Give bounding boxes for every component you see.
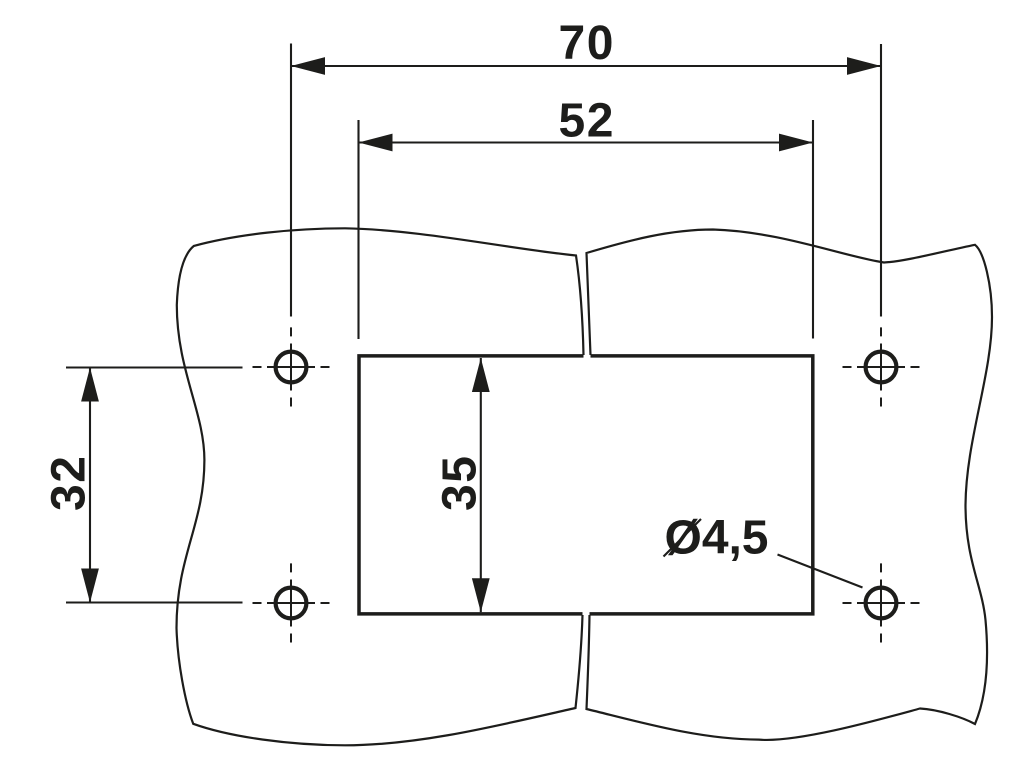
svg-text:35: 35 — [434, 456, 487, 511]
svg-text:52: 52 — [559, 95, 614, 148]
svg-text:70: 70 — [559, 17, 614, 70]
svg-text:Ø4,5: Ø4,5 — [665, 511, 769, 564]
svg-text:32: 32 — [42, 456, 95, 511]
